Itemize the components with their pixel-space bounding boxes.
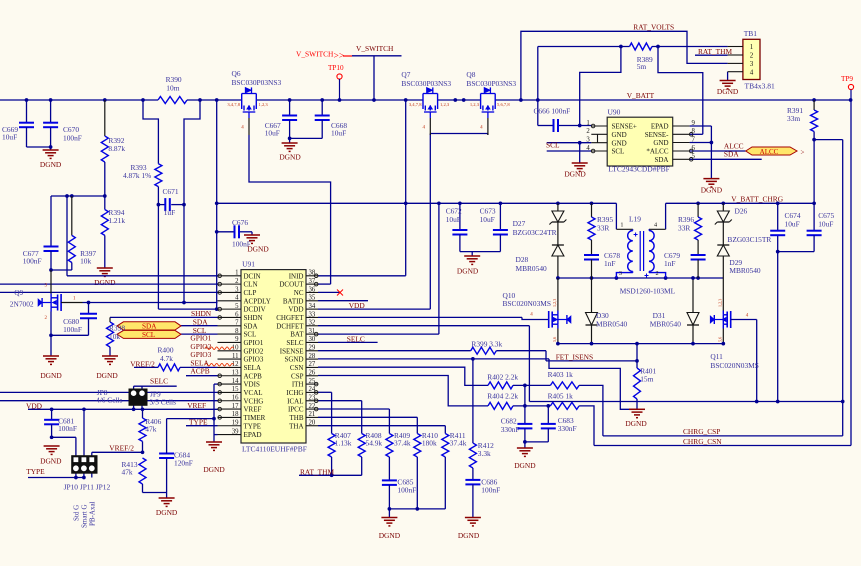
svg-text:1.21k: 1.21k <box>108 216 125 225</box>
svg-text:GND: GND <box>653 139 668 147</box>
svg-text:V_SWITCH: V_SWITCH <box>296 49 334 58</box>
svg-text:SCL: SCL <box>546 140 560 149</box>
svg-text:21: 21 <box>309 411 316 418</box>
svg-text:DGND: DGND <box>40 457 62 466</box>
svg-text:MBR0540: MBR0540 <box>729 266 761 275</box>
svg-text:CLN: CLN <box>244 281 258 289</box>
svg-text:4/6 Cells: 4/6 Cells <box>96 396 123 405</box>
svg-text:GND: GND <box>612 131 627 139</box>
svg-text:CHGFET: CHGFET <box>276 314 304 322</box>
svg-text:GND: GND <box>612 139 627 147</box>
svg-text:INID: INID <box>289 272 304 280</box>
svg-text:VREF: VREF <box>244 406 262 414</box>
svg-text:10k: 10k <box>80 257 91 266</box>
svg-text:26: 26 <box>309 370 316 377</box>
svg-text:100nF: 100nF <box>63 325 82 334</box>
svg-text:DCDIV: DCDIV <box>244 306 266 314</box>
svg-text:DCHFET: DCHFET <box>276 322 304 330</box>
svg-text:3/5 Cells: 3/5 Cells <box>150 398 177 407</box>
svg-text:GPIO3: GPIO3 <box>190 350 211 359</box>
svg-text:10uF: 10uF <box>2 133 17 142</box>
svg-text:U90: U90 <box>608 107 621 116</box>
svg-text:5: 5 <box>235 303 239 310</box>
svg-text:SELC: SELC <box>150 377 168 386</box>
svg-text:DGND: DGND <box>701 186 723 195</box>
svg-text:10uF: 10uF <box>446 215 461 224</box>
svg-text:GPIO1: GPIO1 <box>244 339 264 347</box>
svg-text:MBR0540: MBR0540 <box>516 264 548 273</box>
svg-text:TYPE: TYPE <box>244 422 262 430</box>
svg-text:VDD: VDD <box>349 301 366 310</box>
svg-text:VDD: VDD <box>26 401 43 410</box>
svg-text:Q11: Q11 <box>710 352 723 361</box>
svg-text:DGND: DGND <box>457 267 479 276</box>
svg-text:9: 9 <box>235 336 239 343</box>
svg-text:SENSE-: SENSE- <box>645 131 669 139</box>
svg-text:BSC030P03NS3: BSC030P03NS3 <box>466 79 516 88</box>
svg-text:3: 3 <box>586 137 590 144</box>
svg-text:JP10 JP11 JP12: JP10 JP11 JP12 <box>64 483 111 492</box>
svg-text:DGND: DGND <box>94 278 116 287</box>
svg-text:RAT_VOLTS: RAT_VOLTS <box>633 23 674 32</box>
svg-text:SCL: SCL <box>142 331 155 339</box>
svg-text:L19: L19 <box>629 215 641 224</box>
svg-text:VCHG: VCHG <box>244 397 264 405</box>
svg-text:54.9k: 54.9k <box>366 439 383 448</box>
svg-text:8: 8 <box>235 328 239 335</box>
svg-text:RAT_THM: RAT_THM <box>300 468 335 477</box>
svg-text:SELA: SELA <box>244 364 262 372</box>
svg-text:R405 1k: R405 1k <box>548 392 574 401</box>
svg-text:1: 1 <box>235 270 238 277</box>
svg-text:NC: NC <box>294 289 304 297</box>
svg-text:18: 18 <box>232 411 239 418</box>
svg-text:MBR0540: MBR0540 <box>650 320 682 329</box>
svg-text:TP9: TP9 <box>841 75 853 83</box>
svg-text:5: 5 <box>692 153 696 160</box>
svg-text:D27: D27 <box>513 219 526 228</box>
svg-text:10m: 10m <box>166 84 179 93</box>
svg-text:1: 1 <box>586 120 589 127</box>
svg-text:ACPB: ACPB <box>244 372 263 380</box>
svg-text:*ALCC: *ALCC <box>646 148 669 156</box>
svg-text:100nF: 100nF <box>58 424 77 433</box>
svg-text:ICHG: ICHG <box>286 389 303 397</box>
svg-text:DGND: DGND <box>40 371 62 380</box>
svg-text:R402 2.2k: R402 2.2k <box>487 373 518 382</box>
svg-text:4.7k: 4.7k <box>160 354 173 363</box>
svg-text:6: 6 <box>692 145 696 152</box>
svg-text:100nF: 100nF <box>23 257 42 266</box>
svg-text:VREF/2: VREF/2 <box>109 444 134 453</box>
svg-text:V_BATT_CHRG: V_BATT_CHRG <box>731 195 783 204</box>
svg-text:10uF: 10uF <box>480 215 495 224</box>
svg-text:ITH: ITH <box>292 381 304 389</box>
svg-text:SENSE+: SENSE+ <box>612 123 637 131</box>
svg-text:BSC020N03MS: BSC020N03MS <box>710 361 758 370</box>
svg-text:180k: 180k <box>422 439 437 448</box>
svg-text:SDA: SDA <box>244 322 258 330</box>
svg-text:R403 1k: R403 1k <box>548 370 574 379</box>
svg-text:BZG03C15TR: BZG03C15TR <box>727 235 771 244</box>
svg-text:6: 6 <box>235 311 239 318</box>
svg-text:10k: 10k <box>109 332 120 341</box>
svg-text:Smart G: Smart G <box>81 504 89 528</box>
svg-text:VREF/2: VREF/2 <box>130 359 155 368</box>
svg-text:SGND: SGND <box>284 356 303 364</box>
svg-text:4: 4 <box>750 68 754 76</box>
svg-text:SELC: SELC <box>347 335 365 344</box>
svg-text:TIMER: TIMER <box>244 414 266 422</box>
svg-text:THA: THA <box>289 422 303 430</box>
svg-text:TP10: TP10 <box>328 64 344 72</box>
svg-text:ACPDLY: ACPDLY <box>244 297 271 305</box>
svg-text:MBR0540: MBR0540 <box>596 320 628 329</box>
svg-text:PB-Axal: PB-Axal <box>89 501 97 526</box>
svg-text:2N7002: 2N7002 <box>10 300 34 309</box>
svg-text:GPIO3: GPIO3 <box>244 356 264 364</box>
svg-text:4.87k 1%: 4.87k 1% <box>123 171 151 180</box>
svg-text:10: 10 <box>232 345 239 352</box>
svg-text:SCL: SCL <box>244 331 257 339</box>
svg-text:SDA: SDA <box>142 323 157 331</box>
svg-text:5m: 5m <box>637 62 647 71</box>
svg-text:LTC4110EUHF#PBF: LTC4110EUHF#PBF <box>242 445 307 454</box>
svg-text:EPAD: EPAD <box>244 431 262 439</box>
svg-text:GPIO2: GPIO2 <box>244 347 264 355</box>
svg-text:1: 1 <box>750 43 754 51</box>
svg-text:V_BATT: V_BATT <box>627 91 655 100</box>
svg-text:2: 2 <box>586 128 590 135</box>
svg-text:2: 2 <box>656 270 659 277</box>
svg-text:DGND: DGND <box>458 531 480 540</box>
svg-text:8: 8 <box>692 128 696 135</box>
svg-text:VCAL: VCAL <box>244 389 263 397</box>
svg-text:330nF: 330nF <box>558 424 577 433</box>
svg-text:33R: 33R <box>678 224 690 233</box>
svg-text:ISENSE: ISENSE <box>280 347 304 355</box>
svg-text:FET_ISENS: FET_ISENS <box>556 352 593 361</box>
svg-text:DGND: DGND <box>379 531 401 540</box>
svg-text:1.13k: 1.13k <box>335 439 352 448</box>
svg-text:330nF: 330nF <box>501 425 520 434</box>
svg-text:BZG03C24TR: BZG03C24TR <box>513 228 557 237</box>
svg-text:39: 39 <box>232 428 239 435</box>
svg-text:12: 12 <box>232 361 239 368</box>
svg-text:TB4x3.81: TB4x3.81 <box>745 82 775 91</box>
svg-text:100nF: 100nF <box>481 486 500 495</box>
svg-text:DGND: DGND <box>96 371 118 380</box>
svg-text:BATID: BATID <box>283 297 304 305</box>
svg-text:1uF: 1uF <box>164 208 176 217</box>
svg-text:TB1: TB1 <box>744 29 758 38</box>
svg-text:THB: THB <box>290 414 304 422</box>
svg-text:19: 19 <box>232 420 239 427</box>
svg-text:34: 34 <box>309 303 316 310</box>
svg-text:DGND: DGND <box>40 160 62 169</box>
svg-text:100nF: 100nF <box>397 486 416 495</box>
svg-text:RAT_THM: RAT_THM <box>698 47 733 56</box>
svg-text:DCIN: DCIN <box>244 272 261 280</box>
svg-text:120nF: 120nF <box>174 459 193 468</box>
svg-text:VREF: VREF <box>187 401 206 410</box>
svg-text:7: 7 <box>692 136 696 143</box>
svg-text:14: 14 <box>232 378 239 385</box>
svg-text:1nF: 1nF <box>604 259 616 268</box>
svg-text:DGND: DGND <box>564 170 586 179</box>
svg-text:4: 4 <box>586 145 590 152</box>
svg-text:100nF: 100nF <box>63 134 82 143</box>
svg-text:30: 30 <box>309 336 316 343</box>
svg-text:47k: 47k <box>145 425 156 434</box>
svg-text:C666 100nF: C666 100nF <box>534 107 571 116</box>
svg-text:33: 33 <box>309 311 316 318</box>
svg-text:R399 3.3k: R399 3.3k <box>471 340 502 349</box>
svg-text:DGND: DGND <box>156 508 178 517</box>
svg-text:BSC020N03MS: BSC020N03MS <box>503 299 551 308</box>
svg-text:CLP: CLP <box>244 289 257 297</box>
svg-text:DCOUT: DCOUT <box>279 281 304 289</box>
svg-text:Q6: Q6 <box>232 69 241 78</box>
svg-text:11: 11 <box>232 353 239 360</box>
svg-text:Std G: Std G <box>73 505 81 521</box>
svg-text:SCL: SCL <box>612 148 625 156</box>
svg-text:SDA: SDA <box>724 150 739 159</box>
svg-text:15: 15 <box>232 386 239 393</box>
svg-text:VDIS: VDIS <box>244 381 260 389</box>
svg-text:35: 35 <box>309 295 316 302</box>
svg-text:17: 17 <box>232 403 239 410</box>
svg-text:R404 2.2k: R404 2.2k <box>487 392 518 401</box>
svg-text:U91: U91 <box>242 260 255 269</box>
svg-text:2: 2 <box>750 52 754 60</box>
svg-text:13: 13 <box>232 370 239 377</box>
svg-text:4: 4 <box>235 295 239 302</box>
svg-text:BAT: BAT <box>290 331 304 339</box>
svg-text:TYPE: TYPE <box>26 467 45 476</box>
svg-text:3.3k: 3.3k <box>478 449 491 458</box>
svg-text:33m: 33m <box>787 114 800 123</box>
svg-text:28: 28 <box>309 353 316 360</box>
svg-text:32: 32 <box>309 320 316 327</box>
svg-text:10uF: 10uF <box>818 220 833 229</box>
svg-text:9: 9 <box>692 120 696 127</box>
svg-text:ICAL: ICAL <box>287 397 303 405</box>
svg-text:ACPB: ACPB <box>190 367 209 376</box>
svg-text:VDD: VDD <box>288 306 303 314</box>
svg-text:D26: D26 <box>735 206 748 215</box>
svg-text:BSC030P03NS3: BSC030P03NS3 <box>401 79 451 88</box>
svg-text:IPCC: IPCC <box>288 406 304 414</box>
svg-text:3: 3 <box>235 286 239 293</box>
svg-text:10uF: 10uF <box>331 129 346 138</box>
svg-text:V_SWITCH: V_SWITCH <box>356 44 394 53</box>
svg-text:47k: 47k <box>122 468 133 477</box>
svg-text:>: > <box>801 149 805 157</box>
svg-text:CSP: CSP <box>291 372 304 380</box>
svg-text:15m: 15m <box>640 375 653 384</box>
svg-text:3: 3 <box>750 60 754 68</box>
svg-text:CSN: CSN <box>290 364 304 372</box>
svg-text:SHDN: SHDN <box>244 314 263 322</box>
svg-text:DGND: DGND <box>279 153 301 162</box>
svg-text:4: 4 <box>654 222 657 229</box>
svg-text:1nF: 1nF <box>664 259 676 268</box>
svg-text:TYPE: TYPE <box>189 417 208 426</box>
svg-text:Q8: Q8 <box>466 70 475 79</box>
svg-text:Q9: Q9 <box>14 288 23 297</box>
svg-text:DGND: DGND <box>625 419 647 428</box>
svg-text:EPAD: EPAD <box>651 123 669 131</box>
svg-text:BSC030P03NS3: BSC030P03NS3 <box>232 78 282 87</box>
svg-text:100nF: 100nF <box>232 240 251 249</box>
svg-text:SHDN: SHDN <box>191 309 212 318</box>
svg-text:33R: 33R <box>597 224 609 233</box>
svg-text:20: 20 <box>309 420 316 427</box>
svg-text:ALCC: ALCC <box>760 148 779 156</box>
svg-text:8.87k: 8.87k <box>108 144 125 153</box>
svg-text:D28: D28 <box>516 255 529 264</box>
svg-text:2: 2 <box>235 278 239 285</box>
svg-text:LTC2943CDD#PBF: LTC2943CDD#PBF <box>608 165 669 174</box>
svg-text:16: 16 <box>232 395 239 402</box>
svg-text:27: 27 <box>309 361 316 368</box>
svg-text:10uF: 10uF <box>785 220 800 229</box>
svg-text:7: 7 <box>235 320 239 327</box>
svg-text:>>: >> <box>334 52 345 62</box>
svg-text:1: 1 <box>620 222 623 229</box>
svg-text:DGND: DGND <box>203 465 225 474</box>
svg-text:DGND: DGND <box>514 461 536 470</box>
svg-text:Q7: Q7 <box>401 70 410 79</box>
svg-text:37.4k: 37.4k <box>394 439 411 448</box>
svg-text:SDA: SDA <box>654 156 668 164</box>
svg-text:10uF: 10uF <box>265 129 280 138</box>
svg-text:CHRG_CSN: CHRG_CSN <box>683 437 722 446</box>
svg-text:MSD1260-103ML: MSD1260-103ML <box>620 286 676 295</box>
svg-text:C676: C676 <box>232 218 248 227</box>
svg-text:DGND: DGND <box>717 87 739 96</box>
svg-text:CHRG_CSP: CHRG_CSP <box>683 427 720 436</box>
svg-text:29: 29 <box>309 345 316 352</box>
svg-text:36: 36 <box>309 286 316 293</box>
svg-text:C671: C671 <box>163 187 179 196</box>
svg-text:37.4k: 37.4k <box>450 439 467 448</box>
svg-text:3: 3 <box>619 270 622 277</box>
svg-text:SELC: SELC <box>286 339 303 347</box>
